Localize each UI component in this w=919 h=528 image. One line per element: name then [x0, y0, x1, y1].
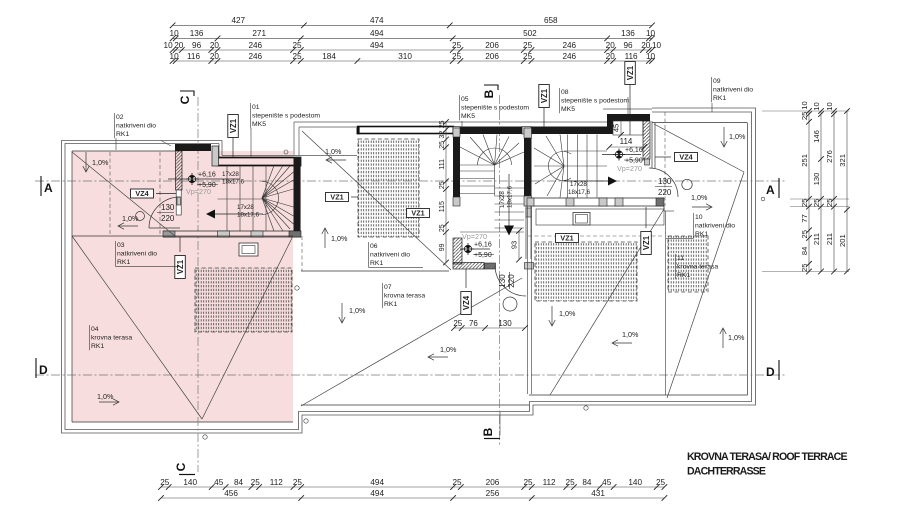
- marker VZ4 left wing: [131, 189, 154, 198]
- divider line right of strip: [663, 206, 665, 211]
- slope diagonal right wing long: [667, 172, 744, 398]
- svg-text:+6,16: +6,16: [625, 147, 643, 154]
- stair 08 run edge lines: [564, 150, 607, 152]
- marker VZ1 rot block08: [625, 62, 636, 85]
- stair 08 winder fan: [534, 148, 564, 166]
- svg-text:658: 658: [544, 16, 558, 25]
- right dim col 3: [833, 111, 835, 272]
- svg-text:18x17,6: 18x17,6: [222, 179, 245, 186]
- svg-text:211: 211: [812, 233, 821, 245]
- svg-text:RK1: RK1: [91, 343, 104, 350]
- section marker D right: [778, 360, 780, 380]
- svg-text:A: A: [44, 181, 53, 195]
- pier grey middle top: [453, 127, 460, 135]
- svg-text:natkriveni dio: natkriveni dio: [370, 252, 410, 259]
- svg-text:25: 25: [439, 141, 446, 149]
- label 07: [382, 283, 384, 308]
- svg-text:25: 25: [800, 199, 809, 207]
- svg-text:25: 25: [800, 230, 809, 238]
- svg-text:25: 25: [800, 263, 809, 271]
- label 02: [114, 113, 116, 138]
- svg-text:130: 130: [658, 177, 672, 186]
- small circle markers: [295, 286, 299, 290]
- svg-text:140: 140: [183, 478, 197, 487]
- pier dark mid bottom corner: [656, 198, 664, 206]
- section marker A right: [778, 178, 780, 198]
- svg-text:96: 96: [623, 41, 633, 50]
- svg-text:Vp=270: Vp=270: [186, 187, 211, 196]
- stair 01 landing edge: [218, 198, 263, 200]
- building outline outer: [62, 108, 756, 433]
- svg-text:211: 211: [825, 233, 834, 245]
- svg-text:184: 184: [322, 52, 336, 61]
- svg-text:VZ1: VZ1: [330, 193, 343, 202]
- svg-text:206: 206: [485, 52, 499, 61]
- top dim row 1: [173, 24, 652, 26]
- svg-text:116: 116: [187, 52, 200, 61]
- wall: block01 bottom band: [163, 231, 301, 237]
- svg-text:25: 25: [656, 478, 666, 487]
- wall: block05/08 divider: [524, 128, 532, 206]
- svg-text:20: 20: [606, 52, 616, 61]
- svg-text:stepenište s podestom: stepenište s podestom: [461, 105, 529, 112]
- svg-text:krovna terasa: krovna terasa: [384, 293, 425, 300]
- svg-text:06: 06: [370, 243, 378, 250]
- svg-text:25: 25: [523, 41, 533, 50]
- label 11: [675, 254, 677, 279]
- svg-text:natkriveni dio: natkriveni dio: [116, 123, 156, 130]
- right dim col 1: [808, 111, 810, 272]
- wall: mid bottom band (y198): [527, 197, 664, 199]
- svg-text:25: 25: [439, 181, 446, 189]
- svg-text:natkriveni dio: natkriveni dio: [695, 223, 735, 230]
- svg-text:10: 10: [170, 29, 180, 38]
- slope 02: [85, 152, 87, 172]
- svg-text:02: 02: [116, 114, 124, 121]
- pink fill stair block 01: [175, 151, 219, 237]
- interior dim 45: [620, 121, 622, 135]
- hatched area 03: [195, 268, 292, 332]
- svg-text:05: 05: [461, 96, 469, 103]
- svg-text:271: 271: [252, 29, 266, 38]
- marker VZ1 area06 a: [326, 193, 349, 202]
- svg-text:D: D: [766, 365, 775, 379]
- pier left of band: [212, 146, 219, 166]
- pier grey mid bottom 4: [615, 198, 623, 206]
- label 05: [459, 95, 461, 120]
- svg-text:09: 09: [713, 78, 721, 85]
- svg-text:25: 25: [523, 478, 533, 487]
- svg-text:1,0%: 1,0%: [440, 345, 457, 354]
- svg-text:DACHTERRASSE: DACHTERRASSE: [687, 466, 766, 478]
- dashed boundary line 07: [528, 235, 664, 237]
- pier grey mid bottom 3: [599, 198, 607, 206]
- svg-text:25: 25: [800, 112, 809, 120]
- slope 07 left: [341, 303, 343, 323]
- svg-text:RK1: RK1: [117, 259, 130, 266]
- svg-text:76: 76: [469, 319, 478, 328]
- marker VZ4 right wing: [675, 153, 698, 162]
- svg-text:1,0%: 1,0%: [349, 306, 366, 315]
- stair 08 walking circle: [548, 151, 571, 180]
- pier grey divider top: [524, 128, 532, 138]
- svg-text:96: 96: [192, 41, 202, 50]
- svg-text:130: 130: [161, 203, 175, 212]
- svg-text:17x28: 17x28: [222, 171, 239, 178]
- svg-text:220: 220: [507, 274, 516, 288]
- wall: block05 west: [453, 128, 460, 206]
- svg-text:1,0%: 1,0%: [622, 330, 639, 339]
- dashed boundary right wing: [664, 112, 666, 206]
- door arc right wing: [649, 168, 678, 197]
- svg-text:D: D: [39, 363, 48, 377]
- svg-text:04: 04: [91, 326, 99, 333]
- svg-text:25: 25: [292, 52, 302, 61]
- marker VZ4 rot area07: [461, 292, 472, 315]
- svg-text:111: 111: [439, 159, 446, 170]
- section line D-D: [35, 374, 786, 376]
- svg-text:276: 276: [825, 150, 834, 163]
- jamb east: [645, 159, 650, 165]
- svg-text:427: 427: [231, 16, 245, 25]
- svg-text:krovna terasa: krovna terasa: [91, 335, 132, 342]
- stair 01 treads upper run: [226, 166, 228, 200]
- outline chamfer top-left of block01: [161, 141, 171, 147]
- divider lines 07/right terrace: [527, 206, 529, 394]
- divider line right wing lower: [665, 211, 667, 395]
- wall stub at x357: [357, 127, 360, 135]
- slope diagonal left V east: [202, 236, 293, 419]
- svg-text:18x17,6: 18x17,6: [568, 189, 591, 196]
- svg-text:246: 246: [248, 41, 262, 50]
- svg-text:20: 20: [174, 41, 184, 50]
- svg-text:17x28: 17x28: [499, 191, 506, 208]
- svg-text:RK1: RK1: [695, 231, 708, 238]
- label 03: [115, 241, 117, 266]
- section line A-A: [35, 180, 786, 182]
- svg-text:20: 20: [606, 41, 616, 50]
- svg-text:146: 146: [812, 130, 821, 143]
- skylight box: [573, 213, 590, 226]
- svg-text:C: C: [174, 462, 188, 471]
- dashed boundary 06 left: [301, 236, 303, 271]
- svg-text:246: 246: [248, 52, 262, 61]
- slope 07 mid: [551, 306, 553, 326]
- svg-text:310: 310: [398, 52, 412, 61]
- door jamb block01: [176, 190, 181, 215]
- svg-text:1,0%: 1,0%: [691, 193, 708, 202]
- covered strip with skylight: [536, 209, 664, 225]
- svg-text:1,0%: 1,0%: [97, 392, 114, 401]
- svg-text:10: 10: [170, 52, 180, 61]
- svg-text:RK1: RK1: [713, 95, 726, 102]
- svg-text:17x28: 17x28: [570, 181, 587, 188]
- svg-text:201: 201: [838, 234, 847, 247]
- svg-text:77: 77: [800, 214, 809, 222]
- svg-text:130: 130: [498, 274, 507, 288]
- stair 01 walking arc: [262, 182, 279, 215]
- section line B-B: [499, 95, 501, 446]
- pier dark: [289, 231, 301, 237]
- svg-text:MK5: MK5: [561, 106, 575, 113]
- svg-text:220: 220: [161, 214, 175, 223]
- svg-text:25: 25: [439, 120, 446, 128]
- parapet band middle top (white core): [358, 127, 454, 134]
- pier grey block05 west: [453, 128, 460, 137]
- svg-text:25: 25: [439, 224, 446, 232]
- marker VZ1 rot area03: [175, 256, 186, 279]
- svg-text:45: 45: [612, 124, 621, 132]
- svg-text:32: 32: [439, 131, 446, 139]
- svg-text:494: 494: [370, 478, 384, 487]
- svg-text:natkriveni dio: natkriveni dio: [713, 87, 753, 94]
- pink roof terrace fill, left wing: [72, 151, 293, 422]
- section marker A left: [40, 176, 42, 196]
- svg-text:112: 112: [270, 478, 283, 487]
- svg-text:07: 07: [384, 284, 392, 291]
- svg-text:136: 136: [621, 29, 635, 38]
- svg-text:MK5: MK5: [252, 121, 266, 128]
- svg-text:25: 25: [453, 319, 462, 328]
- svg-text:502: 502: [523, 29, 537, 38]
- svg-text:VZ4: VZ4: [679, 153, 692, 162]
- hatched area 06: [358, 139, 419, 237]
- door arc block05 bottom: [495, 265, 526, 296]
- marker VZ1 area06 b: [407, 209, 430, 218]
- stair 05 direction arrow: [508, 174, 510, 228]
- svg-text:VZ4: VZ4: [135, 189, 148, 198]
- wall: block01 top-left: [175, 144, 211, 151]
- top edge block08 outline: [603, 108, 652, 110]
- pier grey block05 west low: [453, 197, 460, 206]
- svg-text:246: 246: [562, 52, 576, 61]
- pier grey: [163, 231, 175, 237]
- svg-text:494: 494: [370, 489, 384, 498]
- right dim col 4: [846, 111, 848, 272]
- svg-text:220: 220: [658, 188, 672, 197]
- svg-text:456: 456: [224, 489, 238, 498]
- marker VZ1 area07: [556, 234, 579, 243]
- svg-text:RK1: RK1: [370, 260, 383, 267]
- slope 07 right: [612, 342, 632, 344]
- svg-text:17x28: 17x28: [237, 204, 254, 211]
- hatched area 10: [668, 236, 708, 292]
- svg-text:20: 20: [210, 52, 220, 61]
- wall: middle top black part: [453, 127, 609, 135]
- svg-text:25: 25: [452, 41, 462, 50]
- skylight box below block01: [239, 243, 258, 256]
- terrace floor edge left wing: [72, 421, 293, 423]
- svg-text:25: 25: [292, 41, 302, 50]
- svg-text:321: 321: [838, 154, 847, 167]
- svg-text:256: 256: [486, 489, 500, 498]
- svg-text:stepenište s podestom: stepenište s podestom: [561, 98, 629, 105]
- interior dim 114: [609, 146, 644, 148]
- wall: block01 east: [294, 158, 301, 232]
- interior dim col x446: [445, 122, 447, 263]
- slope 06 bottom: [324, 228, 326, 248]
- svg-text:KROVNA TERASA/ ROOF TERRACE: KROVNA TERASA/ ROOF TERRACE: [687, 451, 847, 463]
- outline step at block01 corner: [221, 141, 223, 156]
- slope diagonal 02 strip: [72, 152, 175, 236]
- svg-text:Vp=270: Vp=270: [617, 164, 642, 173]
- slope 06 top: [326, 159, 346, 161]
- wall stub below divider: [525, 206, 527, 259]
- svg-text:B: B: [481, 427, 495, 436]
- svg-text:25: 25: [452, 52, 462, 61]
- stair 08 direction arrow: [564, 180, 610, 182]
- pier grey middle top 2: [522, 127, 531, 135]
- terrace floor edge middle: [301, 404, 529, 406]
- label 10: [693, 213, 695, 238]
- svg-text:03: 03: [117, 242, 125, 249]
- svg-text:01: 01: [252, 104, 260, 111]
- stair 01 winder fan lower: [262, 198, 294, 207]
- niche 45 outline: [613, 121, 643, 135]
- svg-text:115: 115: [439, 201, 446, 212]
- svg-text:114: 114: [620, 137, 633, 146]
- pier grey divider low: [524, 196, 532, 206]
- svg-text:45: 45: [214, 478, 224, 487]
- right wing west edge lines: [651, 121, 653, 168]
- stair 05 treads left run: [460, 170, 495, 172]
- svg-text:VZ1: VZ1: [642, 235, 651, 250]
- stair 05 landing line: [460, 231, 524, 233]
- svg-text:VZ1: VZ1: [540, 88, 549, 103]
- dashed boundary 02: [109, 152, 111, 236]
- svg-text:140: 140: [628, 478, 642, 487]
- svg-text:10: 10: [695, 214, 703, 221]
- marker VZ1 rot block01: [228, 115, 239, 138]
- slope 09: [723, 127, 725, 147]
- svg-text:krovna terasa: krovna terasa: [677, 264, 718, 271]
- pier grey mid bottom: [527, 198, 534, 206]
- svg-text:stepenište s podestom: stepenište s podestom: [252, 113, 320, 120]
- svg-text:206: 206: [485, 41, 499, 50]
- door arc block01 west: [149, 197, 180, 228]
- marker VZ1 rot area10: [641, 232, 652, 255]
- slope diagonal right wing upper: [654, 124, 744, 172]
- svg-text:08: 08: [561, 89, 569, 96]
- pier grey mid bottom 2: [566, 198, 574, 206]
- pier grey: [218, 231, 230, 237]
- svg-text:25: 25: [566, 478, 576, 487]
- drain circle area 07: [503, 297, 517, 311]
- svg-text:246: 246: [562, 41, 576, 50]
- label 04: [89, 325, 91, 350]
- terrace floor edge right: [529, 394, 748, 396]
- svg-text:45: 45: [602, 478, 612, 487]
- svg-text:20: 20: [641, 41, 651, 50]
- marker VZ1 rot block05: [539, 85, 550, 108]
- wall: block01 top run (slab band): [218, 158, 301, 166]
- stair 05 treads right run: [495, 187, 525, 189]
- top dim row 4: [173, 60, 652, 62]
- level annotation: [464, 245, 471, 252]
- svg-text:11: 11: [677, 255, 684, 262]
- svg-text:C: C: [178, 95, 192, 104]
- stair 05 winder fan: [460, 147, 495, 165]
- svg-text:A: A: [766, 183, 775, 197]
- hatched area 07: [535, 242, 637, 301]
- svg-text:494: 494: [370, 29, 384, 38]
- svg-text:1,0%: 1,0%: [331, 234, 348, 243]
- slope 03: [118, 225, 138, 227]
- label 08: [559, 88, 561, 113]
- wall: block01 west (hatched): [176, 151, 183, 190]
- svg-text:VZ4: VZ4: [462, 295, 471, 310]
- slope 04: [99, 401, 119, 403]
- svg-text:10: 10: [164, 41, 174, 50]
- svg-text:116: 116: [625, 52, 638, 61]
- outline step lines right of block01: [294, 121, 609, 123]
- svg-text:1,0%: 1,0%: [325, 147, 342, 156]
- svg-text:1,0%: 1,0%: [729, 132, 746, 141]
- drain circle right wing: [682, 179, 692, 189]
- svg-text:10: 10: [812, 102, 821, 110]
- svg-text:1,0%: 1,0%: [92, 158, 109, 167]
- wall: block05 bottom (hatched): [453, 263, 484, 270]
- boundary 06 bottom: [301, 270, 449, 272]
- svg-text:25: 25: [251, 478, 261, 487]
- bottom dim row 1: [161, 486, 664, 488]
- svg-text:130: 130: [498, 319, 512, 328]
- svg-text:1,0%: 1,0%: [728, 333, 745, 342]
- svg-text:431: 431: [591, 489, 605, 498]
- svg-text:84: 84: [800, 247, 809, 255]
- svg-text:474: 474: [370, 16, 384, 25]
- svg-text:25: 25: [812, 199, 821, 207]
- svg-text:112: 112: [543, 478, 556, 487]
- label 01: [250, 103, 252, 128]
- right dim col 2: [820, 111, 822, 272]
- svg-text:206: 206: [486, 478, 500, 487]
- svg-text:20: 20: [210, 41, 220, 50]
- svg-text:84: 84: [234, 478, 244, 487]
- svg-text:25: 25: [160, 478, 170, 487]
- svg-text:Vp=270: Vp=270: [462, 232, 487, 241]
- level annotation: [188, 175, 195, 182]
- label 06: [368, 242, 370, 267]
- svg-text:25: 25: [293, 478, 303, 487]
- dim 25-76-130: [454, 327, 525, 329]
- stair 05 down-run divider: [494, 165, 496, 196]
- svg-text:10: 10: [800, 101, 809, 109]
- svg-text:RK1: RK1: [677, 272, 690, 279]
- svg-text:10: 10: [646, 52, 656, 61]
- svg-text:18x17,6: 18x17,6: [506, 185, 513, 208]
- interior dim 93: [518, 231, 520, 260]
- svg-text:18x17,6: 18x17,6: [237, 212, 260, 219]
- extension lines to right dims: [762, 110, 849, 112]
- slope diagonal area 07 long: [301, 278, 522, 406]
- level annotation: [615, 151, 622, 158]
- building outline inner: [65, 112, 752, 430]
- svg-text:93: 93: [510, 241, 519, 249]
- svg-text:251: 251: [800, 154, 809, 167]
- slope 07 low: [428, 356, 448, 358]
- svg-text:10: 10: [652, 41, 662, 50]
- stair 08 treads straight: [567, 135, 569, 198]
- slope 11: [722, 328, 724, 348]
- section marker D left: [35, 358, 37, 378]
- slope 10: [692, 206, 712, 208]
- pier dark block05 bottom: [485, 263, 496, 269]
- drain circle left wing: [136, 212, 145, 221]
- top dim row 2: [173, 37, 652, 39]
- svg-text:494: 494: [370, 41, 384, 50]
- stair 01 winder fan upper: [262, 166, 274, 199]
